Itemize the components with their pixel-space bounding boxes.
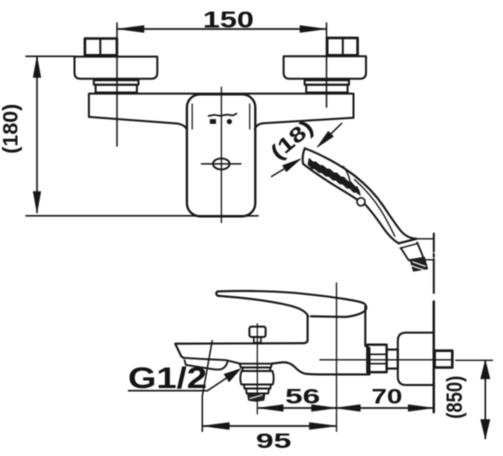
shower outlet thread <box>248 393 265 401</box>
dim 850 bottom arrow <box>481 420 490 439</box>
dim 150 left extension line / left union center line <box>116 23 118 146</box>
hand shower bottom outline <box>303 164 357 200</box>
dim 180 bottom arrow <box>33 192 41 213</box>
dim 70 left arrow <box>335 405 360 412</box>
right wall union hex nut <box>327 38 357 55</box>
svg-text:G1/2: G1/2 <box>128 362 207 395</box>
body inner shoulder line right <box>249 104 251 129</box>
dim 70 right arrow <box>408 405 433 412</box>
wall line <box>433 302 435 413</box>
pipe axis line <box>320 359 452 361</box>
side view center line <box>336 283 338 431</box>
dim 850 line <box>484 360 486 438</box>
body center line <box>220 87 222 222</box>
top bar bottom edge right segment <box>255 118 354 130</box>
dim 56 left arrow <box>258 405 283 412</box>
wall center line dash-dot <box>433 234 435 413</box>
wall escutcheon side view <box>398 333 434 385</box>
spout mouth lower line <box>186 362 228 370</box>
right locknut <box>305 80 349 85</box>
svg-text:(850): (850) <box>442 376 467 419</box>
wall nipple <box>435 351 453 368</box>
dim 180 top extension line <box>26 55 75 57</box>
body inner shoulder line left <box>191 104 193 129</box>
shower outlet ring E <box>246 389 269 394</box>
hand shower spray hatch band <box>308 158 360 195</box>
lever handle bottom edge <box>218 296 308 317</box>
dim 150 left arrow <box>118 26 144 33</box>
shower outlet ring A <box>240 364 272 368</box>
spout mouth left cap <box>185 360 186 365</box>
union hex nut side view <box>367 345 386 373</box>
top bar bottom edge left segment <box>89 117 187 130</box>
dim 18 lower arrow <box>283 159 301 172</box>
dim 180 vertical line <box>36 57 38 213</box>
union neck <box>387 350 398 369</box>
hand shower inner highlight line <box>355 180 395 237</box>
dim 180 bottom extension line <box>26 215 258 217</box>
dim 150 line <box>118 28 326 30</box>
leader line handle to wall axis upper <box>416 238 434 240</box>
svg-text:150: 150 <box>203 7 254 33</box>
G1/2 leader line <box>129 377 229 391</box>
diverter knob <box>249 327 265 337</box>
body underside right of diverter with fillet <box>272 307 369 375</box>
shower outlet barrel <box>240 371 273 384</box>
faucet body side view outline <box>175 316 307 358</box>
hand shower handle bottom outline <box>365 204 399 243</box>
leader line handle to wall axis lower <box>424 259 434 261</box>
hand shower head seam <box>344 167 350 181</box>
left escutcheon flange <box>75 57 158 79</box>
right escutcheon flange <box>284 56 366 79</box>
logo square mark <box>210 119 216 123</box>
shower outlet ring B <box>243 367 271 371</box>
dim 95 left extension (slanted through spout) <box>202 341 212 432</box>
dim 56 line <box>258 407 336 409</box>
hand shower top outline <box>305 148 417 239</box>
faucet body front view <box>187 94 255 216</box>
dim 56 right arrow <box>312 405 337 412</box>
dim 95 right arrow <box>309 423 336 430</box>
hand shower end cone <box>401 243 424 261</box>
faucet top bar outline <box>89 94 354 118</box>
left locknut <box>94 80 139 85</box>
body logo squiggle <box>209 114 237 116</box>
dim 850 extension line <box>456 359 493 361</box>
dim 18 upper arrow <box>317 131 333 147</box>
dim 150 right extension line / right union center line <box>326 23 328 107</box>
dim 850 top arrow <box>481 360 490 379</box>
lever handle outline <box>216 291 366 317</box>
svg-text:56: 56 <box>285 384 320 408</box>
dim 18 upper line <box>319 124 342 146</box>
G1/2 leader arrow <box>224 369 241 382</box>
dim 95 left arrow <box>202 423 229 430</box>
dim 180 top arrow <box>33 57 41 78</box>
dim 150 right arrow <box>300 26 326 33</box>
hand shower threaded nipple <box>410 257 428 271</box>
hand shower face edge <box>303 148 305 164</box>
svg-text:70: 70 <box>371 384 402 408</box>
logo dot mark <box>227 119 232 124</box>
dim 95 line <box>202 425 336 427</box>
left wall union hex nut <box>85 39 117 56</box>
hand shower hang ring <box>357 198 365 206</box>
hand shower cuff <box>399 239 417 244</box>
diverter stem <box>254 337 261 343</box>
dim 70 line <box>335 407 433 409</box>
svg-text:95: 95 <box>256 429 292 453</box>
svg-text:(180): (180) <box>0 104 23 154</box>
body screw <box>213 158 230 169</box>
shower outlet ring D <box>244 384 271 388</box>
dim 18 lower line <box>272 160 300 177</box>
diverter center line <box>256 324 258 414</box>
